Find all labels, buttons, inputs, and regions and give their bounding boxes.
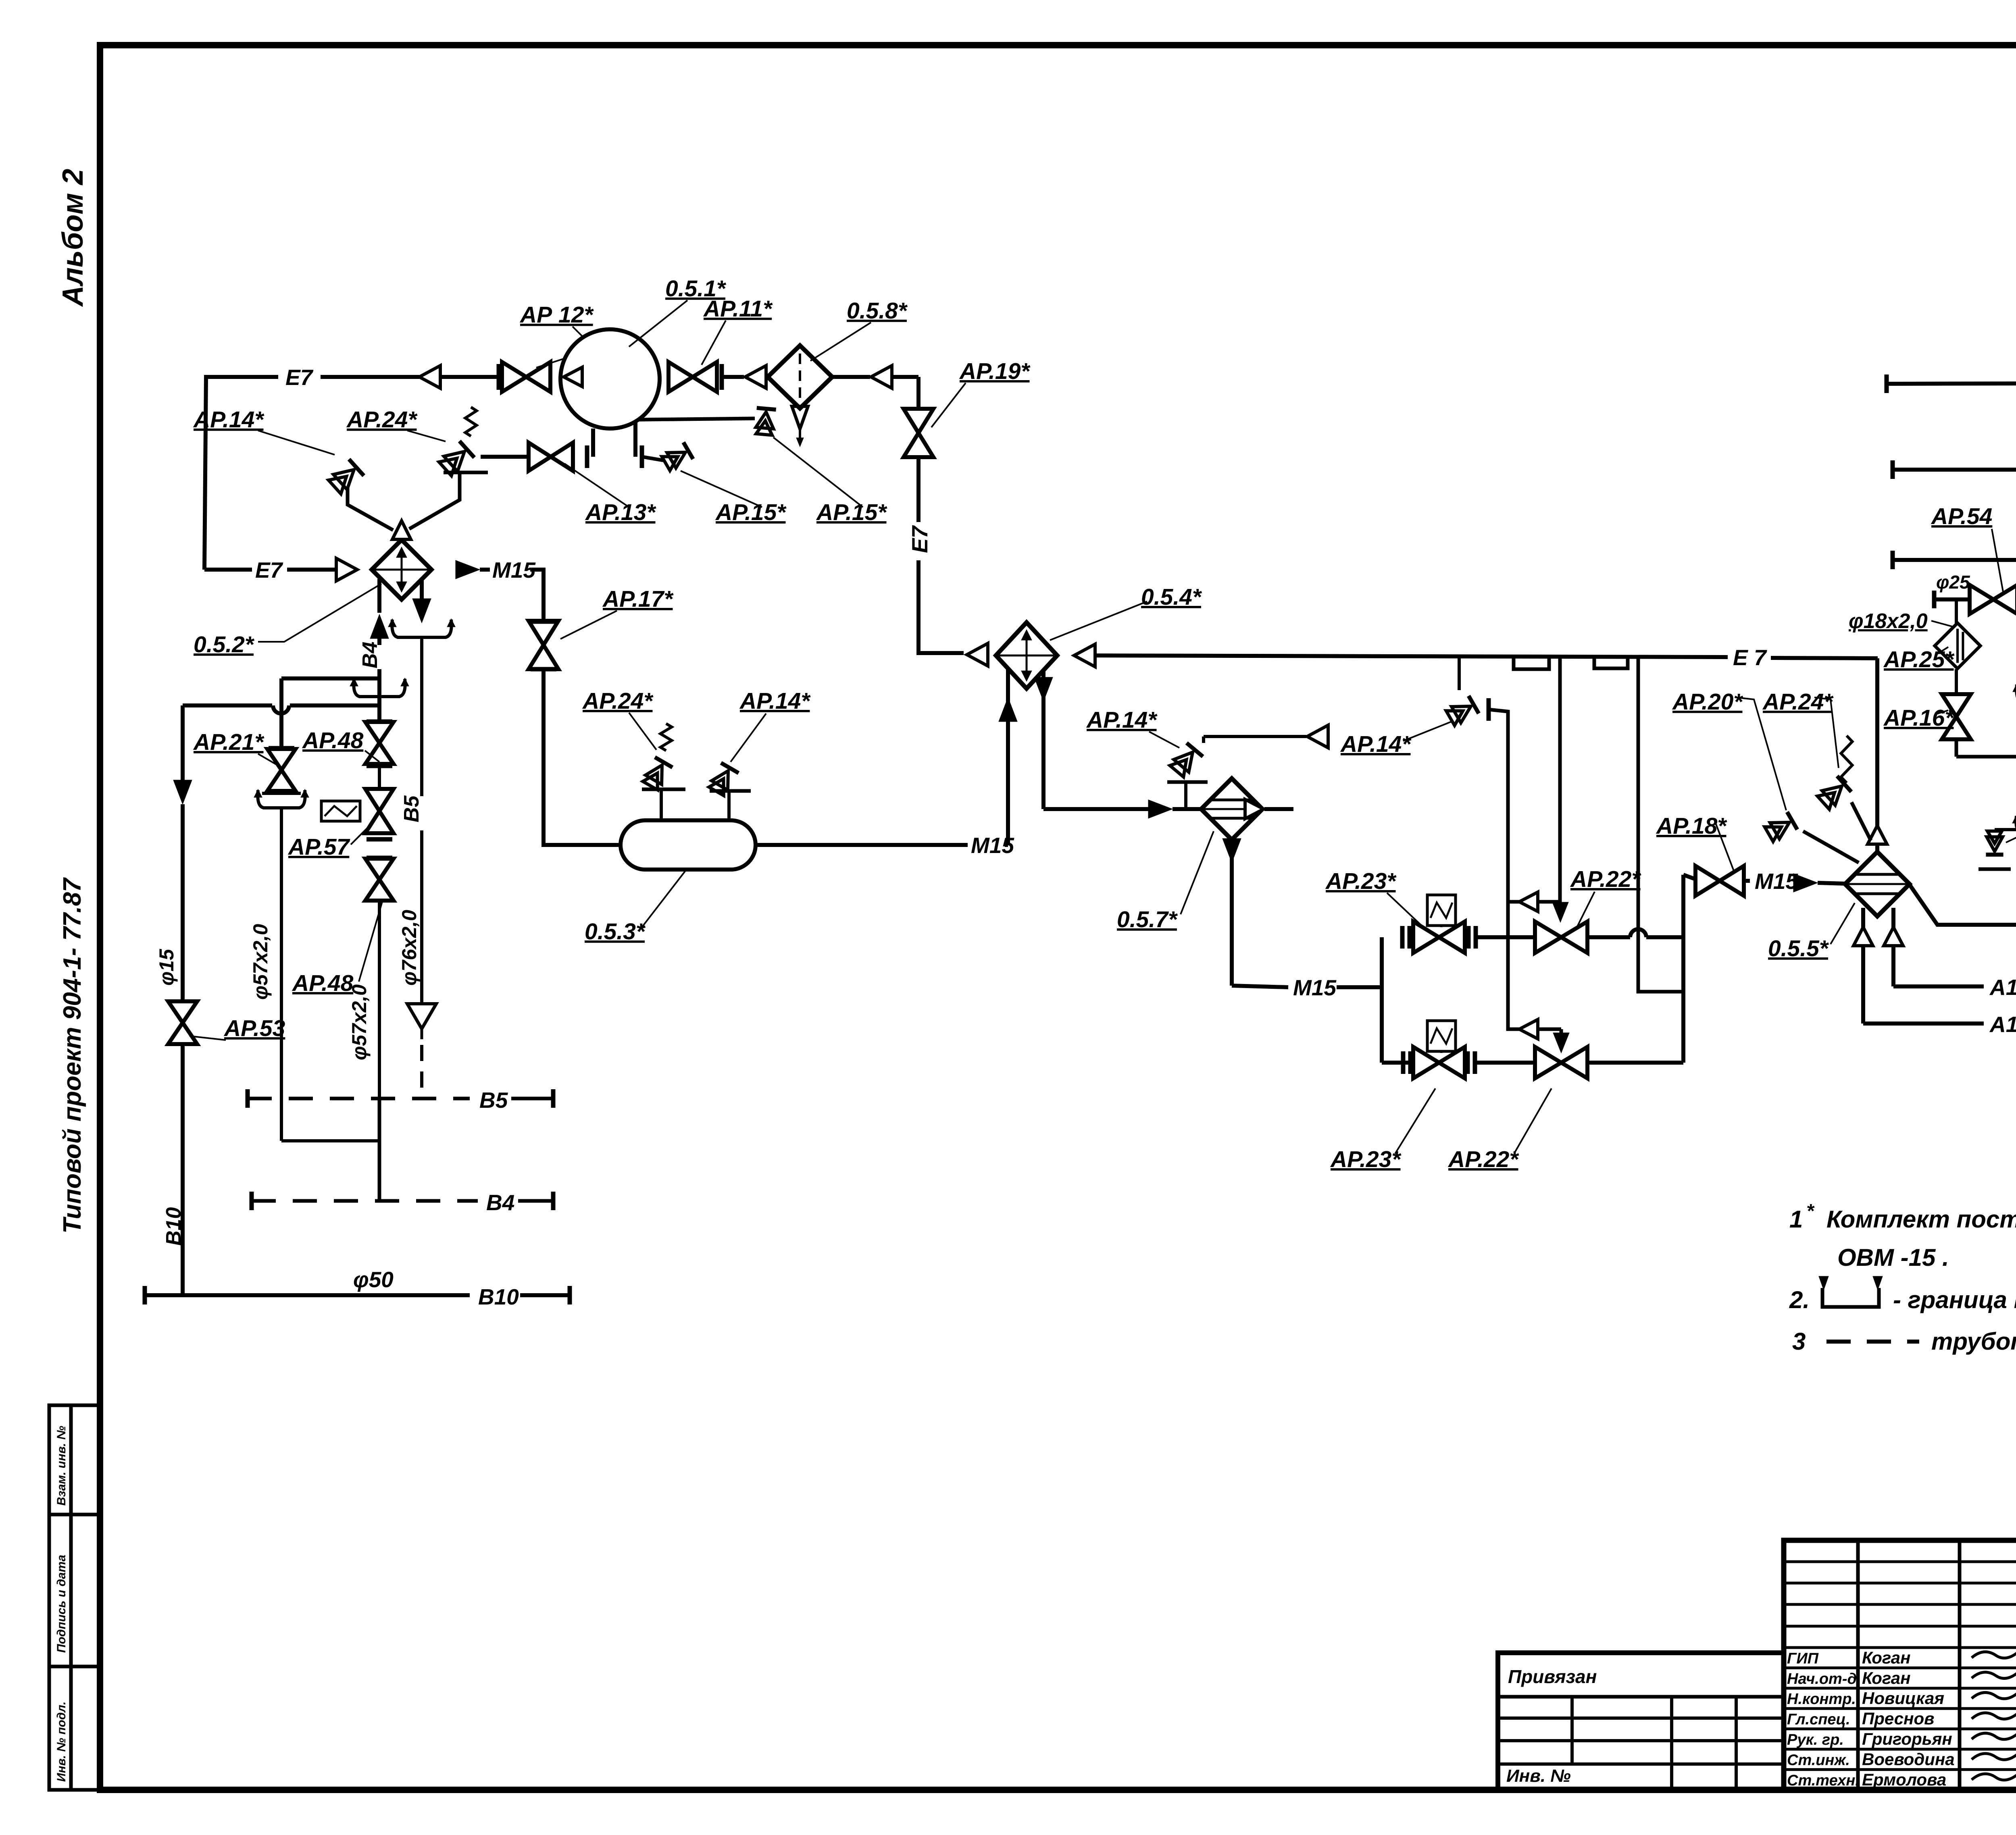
- leader АР.24 top: [407, 431, 446, 441]
- pipeline A4.4: [1887, 383, 2016, 384]
- leader АР.23 upper: [1387, 893, 1423, 927]
- tick B10 right: [568, 1286, 572, 1304]
- wire AP18 line: [1683, 875, 1697, 880]
- svg-text:Ермолова: Ермолова: [1862, 1770, 1946, 1789]
- valve AP.54: [1970, 585, 1993, 614]
- arrow inside 0.5.1 left: [564, 367, 582, 387]
- valve AP.23 upper: [1413, 922, 1439, 953]
- title signature 4: [1972, 1732, 2016, 1739]
- wire vent 057: [1202, 736, 1205, 743]
- wire АР.24 to 0.5.2 top: [409, 472, 460, 529]
- tick A1.1 left: [1891, 551, 1895, 569]
- margin table divider: [69, 1405, 73, 1790]
- svg-text:АР.24*: АР.24*: [346, 407, 418, 433]
- title small row 0: [1784, 1560, 2016, 1563]
- svg-text:Е7: Е7: [285, 365, 314, 390]
- wire M15: [480, 568, 490, 572]
- svg-text:М15: М15: [1293, 975, 1337, 1000]
- svg-text:В10: В10: [162, 1207, 185, 1246]
- valve AP.48 upper: [365, 722, 394, 743]
- wire AP48b down: [378, 901, 381, 1201]
- wire H_b right part: [290, 703, 379, 707]
- arrow up 055 L: [1854, 927, 1873, 946]
- svg-text:0.5.2*: 0.5.2*: [194, 632, 255, 657]
- svg-text:Е 7: Е 7: [1733, 645, 1767, 670]
- title small row 2: [1784, 1603, 2016, 1606]
- relief АР.24 at 0.5.5: [1816, 776, 1851, 811]
- wire АР.14 riser 057: [1184, 782, 1187, 809]
- svg-text:АР.24*: АР.24*: [582, 688, 654, 714]
- svg-text:*: *: [1806, 1200, 1815, 1222]
- wire 0.5.8 to arrow: [832, 375, 870, 379]
- filter АР.25: [1935, 623, 1980, 668]
- wire vent T link: [1995, 828, 2016, 831]
- svg-text:Преснов: Преснов: [1862, 1709, 1934, 1728]
- tick B5 right: [551, 1089, 556, 1108]
- svg-text:АР.14*: АР.14*: [1340, 731, 1412, 757]
- valve AP.23 lower: [1413, 1047, 1439, 1078]
- svg-text:Е7: Е7: [907, 525, 932, 553]
- valve AP.22 lower: [1535, 1047, 1561, 1078]
- check valve АР.14 (left of 0.5.2): [327, 459, 364, 495]
- svg-text:Рук. гр.: Рук. гр.: [1787, 1731, 1844, 1748]
- svg-text:φ76х2,0: φ76х2,0: [398, 910, 421, 986]
- valve AP.21: [267, 749, 296, 770]
- svg-text:Григорьян: Григорьян: [1862, 1729, 1952, 1748]
- privyazan col3: [1735, 1697, 1738, 1790]
- svg-text:АР.48: АР.48: [292, 970, 354, 996]
- flange E7tap: [1487, 698, 1491, 721]
- wire vert C from E7: [1638, 658, 1683, 992]
- arrow H2: [1519, 1019, 1538, 1039]
- svg-text:АР.48: АР.48: [302, 728, 364, 753]
- pipeline A1.2: [1893, 468, 2016, 472]
- wire check tap vertical: [1458, 658, 1461, 690]
- flange AP.17 top: [531, 620, 556, 624]
- loop bracket under AP.21: [263, 806, 300, 809]
- leader АР.57: [351, 822, 373, 845]
- wire H_b: [183, 703, 272, 707]
- margin table line1: [49, 1513, 100, 1517]
- leader АР.21: [258, 754, 282, 768]
- check АР.14 above 0.5.3: [708, 763, 739, 796]
- svg-text:Инв. № подл.: Инв. № подл.: [55, 1702, 68, 1782]
- leader 0.5.5: [1831, 903, 1855, 944]
- title signature 6: [1972, 1773, 2016, 1780]
- wire AP16 down corner: [1955, 739, 1958, 757]
- privyazan col2: [1670, 1697, 1673, 1790]
- valve AP.16: [1942, 694, 1971, 717]
- svg-text:АР.13*: АР.13*: [585, 499, 656, 525]
- leader АР.11: [702, 320, 726, 365]
- svg-text:Привязан: Привязан: [1508, 1666, 1597, 1687]
- valve AP.11: [669, 362, 693, 392]
- svg-text:АР.53: АР.53: [223, 1015, 285, 1041]
- wire check to 055: [1803, 831, 1859, 863]
- wire E7 main: [1095, 655, 1728, 657]
- flange 23u R: [1466, 926, 1471, 949]
- wire φ18 vertical: [1955, 599, 1958, 630]
- svg-text:Альбом 2: Альбом 2: [57, 169, 89, 307]
- svg-text:АР.21*: АР.21*: [193, 729, 264, 755]
- wire АР.24 to vessel: [660, 789, 663, 821]
- arrow on E7 line: [419, 366, 440, 388]
- wire arrow-055: [1818, 883, 1845, 884]
- wire to check 0.5.1: [642, 457, 663, 460]
- leader АР.23 lower: [1395, 1088, 1435, 1154]
- wire connector 055-056: [1909, 874, 2016, 925]
- wire vent 0.5.1: [639, 418, 755, 420]
- wire B4 drop top: [377, 579, 381, 613]
- loop bracket right drop: [397, 636, 446, 639]
- filter 0.5.8: [768, 345, 832, 408]
- svg-text:ГИП: ГИП: [1787, 1650, 1819, 1667]
- svg-text:Новицкая: Новицкая: [1862, 1689, 1944, 1708]
- svg-text:В10: В10: [478, 1284, 519, 1309]
- bar under AP.21: [262, 792, 301, 795]
- leader АР.14 057: [1149, 732, 1179, 748]
- leader 0.5.8: [810, 322, 871, 361]
- granitsa bracket 1: [1514, 657, 1549, 669]
- svg-text:АР.23*: АР.23*: [1325, 868, 1397, 894]
- wire 0.5.1 left stub: [591, 429, 595, 457]
- wire U bottom: [281, 1139, 379, 1142]
- svg-text:АР.23*: АР.23*: [1330, 1146, 1402, 1172]
- title col 0: [1856, 1540, 1860, 1790]
- wire right drop lower: [420, 637, 423, 796]
- pipeline A1.1 lower: [1863, 1022, 1984, 1026]
- jump H_b over AP21: [273, 705, 289, 714]
- relief АР.24 above 0.5.3: [641, 757, 673, 791]
- svg-text:В4: В4: [486, 1190, 514, 1215]
- privyazan header line: [1498, 1695, 1784, 1699]
- wire vert B from E7: [1558, 658, 1562, 913]
- leader 0.5.4: [1050, 601, 1147, 640]
- valve AP.13: [529, 443, 551, 471]
- loop bracket on B4 line: [359, 695, 400, 698]
- arrow vent 057: [1307, 725, 1328, 748]
- wire 23u-22u: [1476, 935, 1535, 939]
- svg-text:АР.14*: АР.14*: [1086, 707, 1158, 733]
- wire 0.5.1 right stub: [633, 421, 637, 457]
- wire check to 0.5.2 top: [348, 487, 393, 530]
- valve AP.18: [1695, 866, 1720, 896]
- wire E7 top left corner: [204, 377, 278, 570]
- wire H_a: [281, 676, 379, 680]
- pipeline A1.2 lower: [1893, 984, 1984, 988]
- wire AP.13 left: [481, 455, 531, 459]
- wire into 0.5.7: [1043, 807, 1150, 811]
- wire lower row left: [1382, 1061, 1414, 1065]
- arrow M15 out of 0.5.2: [456, 560, 480, 579]
- solenoid box АР.57: [321, 801, 360, 821]
- arrow into AP.22u: [1552, 902, 1568, 922]
- tick A1.2 left: [1891, 460, 1895, 479]
- svg-text:АР.16*: АР.16*: [1883, 705, 1955, 731]
- title signature 3: [1972, 1712, 2016, 1719]
- svg-text:Типовой проект 904-1- 77.87: Типовой проект 904-1- 77.87: [58, 877, 86, 1234]
- title name row 5: [1784, 1748, 2016, 1751]
- wire 055 drop R: [1891, 908, 1895, 986]
- wire relief to 055: [1851, 802, 1871, 841]
- tick B5 left: [246, 1089, 250, 1108]
- svg-text:0.5.4*: 0.5.4*: [1141, 584, 1202, 610]
- wire M15-arrow: [1796, 882, 1802, 883]
- svg-text:Коган: Коган: [1862, 1669, 1910, 1687]
- tick B4 left: [250, 1192, 254, 1210]
- svg-text:0.5.3*: 0.5.3*: [585, 919, 646, 945]
- wire right drop of 0.5.2: [420, 579, 424, 606]
- leader АР.15 a: [681, 471, 762, 507]
- title name row 3: [1784, 1707, 2016, 1710]
- wire tap corner: [1489, 709, 1561, 1029]
- flange AP.21: [269, 746, 294, 751]
- check АР.14 on E7: [1445, 696, 1479, 727]
- arrow out 0.5.7: [1245, 799, 1264, 819]
- svg-text:Нач.от-д: Нач.от-д: [1787, 1671, 1857, 1687]
- wire E7 vertical down: [916, 377, 921, 409]
- leader 0.5.7: [1181, 831, 1214, 914]
- flange AP.48 low: [367, 764, 392, 768]
- adsorber 0.5.5: [1845, 852, 1910, 916]
- note 2 symbol: [1822, 1288, 1879, 1307]
- pipeline В10: [145, 1293, 470, 1297]
- wire AP54 left: [1935, 597, 1970, 601]
- wire AP17 down to vessel: [544, 669, 621, 845]
- arrow out 0.5.4 right: [1074, 644, 1095, 667]
- drain funnel under 0.5.8: [792, 406, 808, 429]
- svg-text:А1.2: А1.2: [1989, 975, 2016, 1000]
- svg-text:0.5.5*: 0.5.5*: [1768, 936, 1829, 961]
- wire to funnel: [420, 830, 423, 1003]
- arrow after 0.5.8: [871, 366, 892, 388]
- bar АР.24 0.5.3: [642, 788, 685, 791]
- svg-text:АР.11*: АР.11*: [703, 296, 773, 322]
- funnel on В5 drop: [407, 1004, 436, 1029]
- wire 0.5.7 drop: [1230, 841, 1234, 986]
- svg-text:Ст.инж.: Ст.инж.: [1787, 1752, 1850, 1768]
- leader АР.25: [1935, 647, 1948, 655]
- leader 0.5.3: [642, 871, 685, 927]
- svg-text:Е7: Е7: [255, 558, 283, 583]
- granitsa bracket 2: [1594, 656, 1628, 668]
- svg-text:Коган: Коган: [1862, 1648, 1910, 1667]
- title small row 4: [1784, 1646, 2016, 1649]
- wire E7 stub 055: [1875, 845, 1879, 852]
- note 3 dashes: [1826, 1340, 1919, 1344]
- svg-text:Комплект поставки установки: Комплект поставки установки осушки: [1826, 1206, 2016, 1233]
- title name row 6: [1784, 1768, 2016, 1771]
- svg-text:АР.20*: АР.20*: [1672, 689, 1743, 715]
- leader АР.15 d: [2006, 822, 2016, 843]
- wire net left vertical: [1380, 937, 1384, 1063]
- svg-text:АР.24*: АР.24*: [1762, 689, 1834, 715]
- wire M15 from vessel: [756, 843, 968, 847]
- svg-text:- граница поставки: - граница поставки: [1893, 1286, 2016, 1313]
- privyazan row1: [1498, 1716, 1784, 1720]
- wire M15 bottom2: [1337, 985, 1382, 989]
- wire H1 arrow line: [1508, 900, 1560, 904]
- wire 055 drop L: [1861, 908, 1865, 1024]
- leader АР.13: [564, 464, 629, 507]
- svg-text:АР.14*: АР.14*: [193, 407, 264, 433]
- svg-text:В4: В4: [358, 641, 382, 668]
- title signature 1: [1972, 1671, 2016, 1679]
- vessel 0.5.3: [621, 820, 756, 870]
- leader АР.22 lower: [1514, 1088, 1552, 1154]
- leader АР.54: [1992, 529, 2003, 592]
- wire B5 tail: [511, 1097, 552, 1101]
- svg-text:φ25: φ25: [1936, 572, 1970, 593]
- wire 22u right: [1587, 935, 1630, 939]
- valve AP.57: [365, 789, 394, 811]
- privyazan row3: [1498, 1762, 1784, 1766]
- tick B10 left: [143, 1286, 147, 1304]
- svg-text:φ57х2,0: φ57х2,0: [249, 924, 272, 1000]
- flange AP.12: [497, 364, 501, 390]
- leader АР.14 top: [258, 431, 335, 455]
- pipeline В4 dashed: [252, 1199, 478, 1203]
- arrow into 0.5.4 left: [967, 643, 988, 666]
- wire B4 vertical upper: [377, 630, 381, 645]
- svg-text:φ57х2,0: φ57х2,0: [348, 984, 371, 1060]
- wire B4B5 vertical: [378, 1099, 381, 1201]
- leader АР.48 lower: [359, 899, 383, 982]
- wire 23l-22l: [1475, 1061, 1535, 1065]
- check АР.20 at 0.5.5: [1764, 812, 1797, 843]
- valve AP.12: [502, 362, 526, 392]
- leader 0.5.1: [629, 300, 687, 347]
- title signature 5: [1972, 1752, 2016, 1760]
- exchanger 0.5.4: [996, 622, 1057, 689]
- svg-text:Гл.спец.: Гл.спец.: [1787, 1711, 1850, 1728]
- svg-text:АР.57: АР.57: [287, 834, 350, 860]
- wire arrow to AP12: [440, 375, 497, 379]
- arrow into 0.5.7: [1148, 800, 1173, 818]
- wire left drop 2: [181, 804, 185, 1001]
- wire E7 main 2: [1771, 658, 1878, 658]
- solenoid AP.23 upper: [1427, 895, 1456, 926]
- pipeline A1.1: [1893, 558, 2016, 562]
- title small row 3: [1784, 1625, 2016, 1628]
- wire E7 to 0.5.2: [204, 568, 252, 572]
- wire left drop: [181, 705, 185, 780]
- title col 1: [1958, 1540, 1962, 1790]
- wire АР.25-АР.16: [1955, 669, 1958, 693]
- flange AP.57 low: [367, 837, 392, 842]
- check АР.15 b: [754, 408, 776, 435]
- svg-text:φ50: φ50: [353, 1267, 394, 1292]
- tick B4 right: [551, 1192, 556, 1210]
- arrow down left drop: [173, 780, 192, 804]
- svg-text:АР.22*: АР.22*: [1570, 866, 1641, 892]
- arrow into 0.5.2: [336, 558, 357, 581]
- leader АР.48 upper: [365, 751, 379, 762]
- svg-text:0.5.8*: 0.5.8*: [847, 298, 908, 324]
- svg-text:АР.19*: АР.19*: [959, 358, 1031, 384]
- arrow E7 into 0.5.5 top: [1868, 826, 1887, 844]
- privyazan col1: [1570, 1697, 1574, 1764]
- leader АР.16: [1935, 710, 1948, 714]
- margin table frame: [49, 1405, 100, 1790]
- wire E7 down to 0.5.5: [1875, 658, 1879, 826]
- svg-text:Инв. №: Инв. №: [1506, 1766, 1571, 1786]
- bar vent T: [1979, 868, 2011, 871]
- wire AP18-M15: [1743, 879, 1750, 883]
- title signature 0: [1972, 1650, 2016, 1658]
- svg-text:0.5.7*: 0.5.7*: [1117, 907, 1178, 932]
- arrow down right drop: [412, 599, 431, 623]
- wire to E7 corner: [892, 375, 918, 379]
- wire dashes to B5 line: [420, 1045, 423, 1099]
- wire AP.21 lower: [280, 808, 283, 1141]
- wire M15 riser: [1006, 668, 1010, 845]
- check АР.15 a: [661, 442, 693, 472]
- leader АР.20: [1736, 697, 1786, 810]
- svg-text:А1.1: А1.1: [1989, 1012, 2016, 1037]
- svg-text:В5: В5: [479, 1088, 508, 1113]
- valve AP.48 lower: [365, 859, 394, 880]
- svg-text:В5: В5: [400, 795, 423, 822]
- title name row 2: [1784, 1687, 2016, 1689]
- bar under АР.24: [444, 471, 488, 474]
- leader φ18: [1931, 621, 1954, 627]
- leader АР.53: [190, 1036, 226, 1040]
- wire drain to AP16: [1956, 755, 2016, 759]
- svg-text:М15: М15: [492, 558, 536, 583]
- wire E7 to arrow: [321, 375, 419, 379]
- wire E7 vert lower: [918, 560, 964, 653]
- svg-text:2.: 2.: [1789, 1286, 1810, 1313]
- arrow B4 up into 0.5.2: [370, 614, 389, 639]
- flange AP.17 bottom: [531, 667, 556, 672]
- svg-text:3: 3: [1792, 1328, 1806, 1355]
- leader 0.5.2: [258, 584, 381, 642]
- wire M15 corner: [530, 570, 544, 620]
- title name row 1: [1784, 1666, 2016, 1669]
- wire 22l right: [1587, 1061, 1683, 1065]
- wire AP19 down: [916, 457, 921, 522]
- leader АР.14 E7tap: [1403, 722, 1452, 741]
- arrow before 0.5.8: [745, 366, 766, 388]
- wire 3872 down: [1560, 1029, 1563, 1040]
- wire 0.5.2 top stub: [400, 539, 404, 540]
- svg-text:АР.54: АР.54: [1931, 503, 1992, 529]
- title name row 4: [1784, 1727, 2016, 1730]
- flange AP.11: [720, 364, 724, 390]
- svg-text:трубопроводы раздела ВК: трубопроводы раздела ВК: [1931, 1328, 2016, 1355]
- leader АР.15 b: [773, 437, 863, 507]
- tick AP54 left: [1932, 591, 1937, 608]
- wire B4 tail: [518, 1199, 552, 1203]
- valve AP.53: [168, 1001, 197, 1023]
- wire net right vertical: [1681, 875, 1685, 1063]
- flange AP.48b top: [367, 856, 392, 860]
- svg-text:Н.контр.: Н.контр.: [1787, 1691, 1856, 1708]
- wire AP.21 vertical upper: [279, 678, 283, 747]
- svg-text:АР.15*: АР.15*: [715, 499, 787, 525]
- wire 22u right2: [1646, 935, 1683, 939]
- svg-text:Ст.техн.: Ст.техн.: [1787, 1772, 1860, 1789]
- leader АР 12: [536, 327, 595, 368]
- arrow H1: [1519, 892, 1538, 911]
- title signature 2: [1972, 1691, 2016, 1699]
- wire M15 corner up: [1005, 843, 1008, 847]
- privyazan row2: [1498, 1739, 1784, 1742]
- vessel 0.5.1 circle: [560, 329, 660, 429]
- svg-text:Воеводина: Воеводина: [1862, 1750, 1955, 1768]
- wire 48-57: [378, 766, 381, 788]
